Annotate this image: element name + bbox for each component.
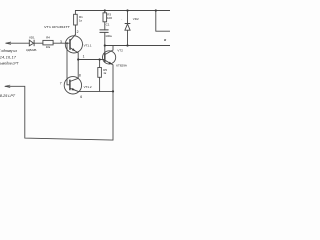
svg-text:2: 2 <box>77 30 79 34</box>
svg-text:6: 6 <box>80 95 82 99</box>
svg-text:К одному из: К одному из <box>0 49 17 53</box>
svg-text:VD2: VD2 <box>133 17 139 21</box>
svg-text:VT1 КР1364ТТ: VT1 КР1364ТТ <box>44 25 70 29</box>
svg-text:VD1: VD1 <box>29 35 35 39</box>
svg-text:VT1.2: VT1.2 <box>84 85 92 89</box>
svg-text:C1: C1 <box>106 22 110 26</box>
svg-text:14,16,17: 14,16,17 <box>0 56 17 60</box>
svg-text:8: 8 <box>79 73 81 77</box>
svg-text:10к: 10к <box>46 45 51 49</box>
svg-text:VT1.1: VT1.1 <box>84 43 92 47</box>
svg-text:КТ829А: КТ829А <box>116 64 127 68</box>
svg-text:R4: R4 <box>46 36 50 40</box>
svg-text:VT2: VT2 <box>117 49 123 53</box>
svg-text:18-25 LPT: 18-25 LPT <box>0 94 16 98</box>
svg-text:3: 3 <box>60 40 62 44</box>
svg-text:выводов LPT: выводов LPT <box>0 62 19 66</box>
svg-text:100: 100 <box>107 16 112 20</box>
svg-text:к: к <box>164 38 166 42</box>
svg-text:КД522Б: КД522Б <box>26 48 36 52</box>
svg-text:-: - <box>121 18 122 22</box>
svg-text:1: 1 <box>83 55 85 59</box>
svg-text:100н: 100н <box>105 34 112 38</box>
svg-text:7: 7 <box>60 81 62 85</box>
